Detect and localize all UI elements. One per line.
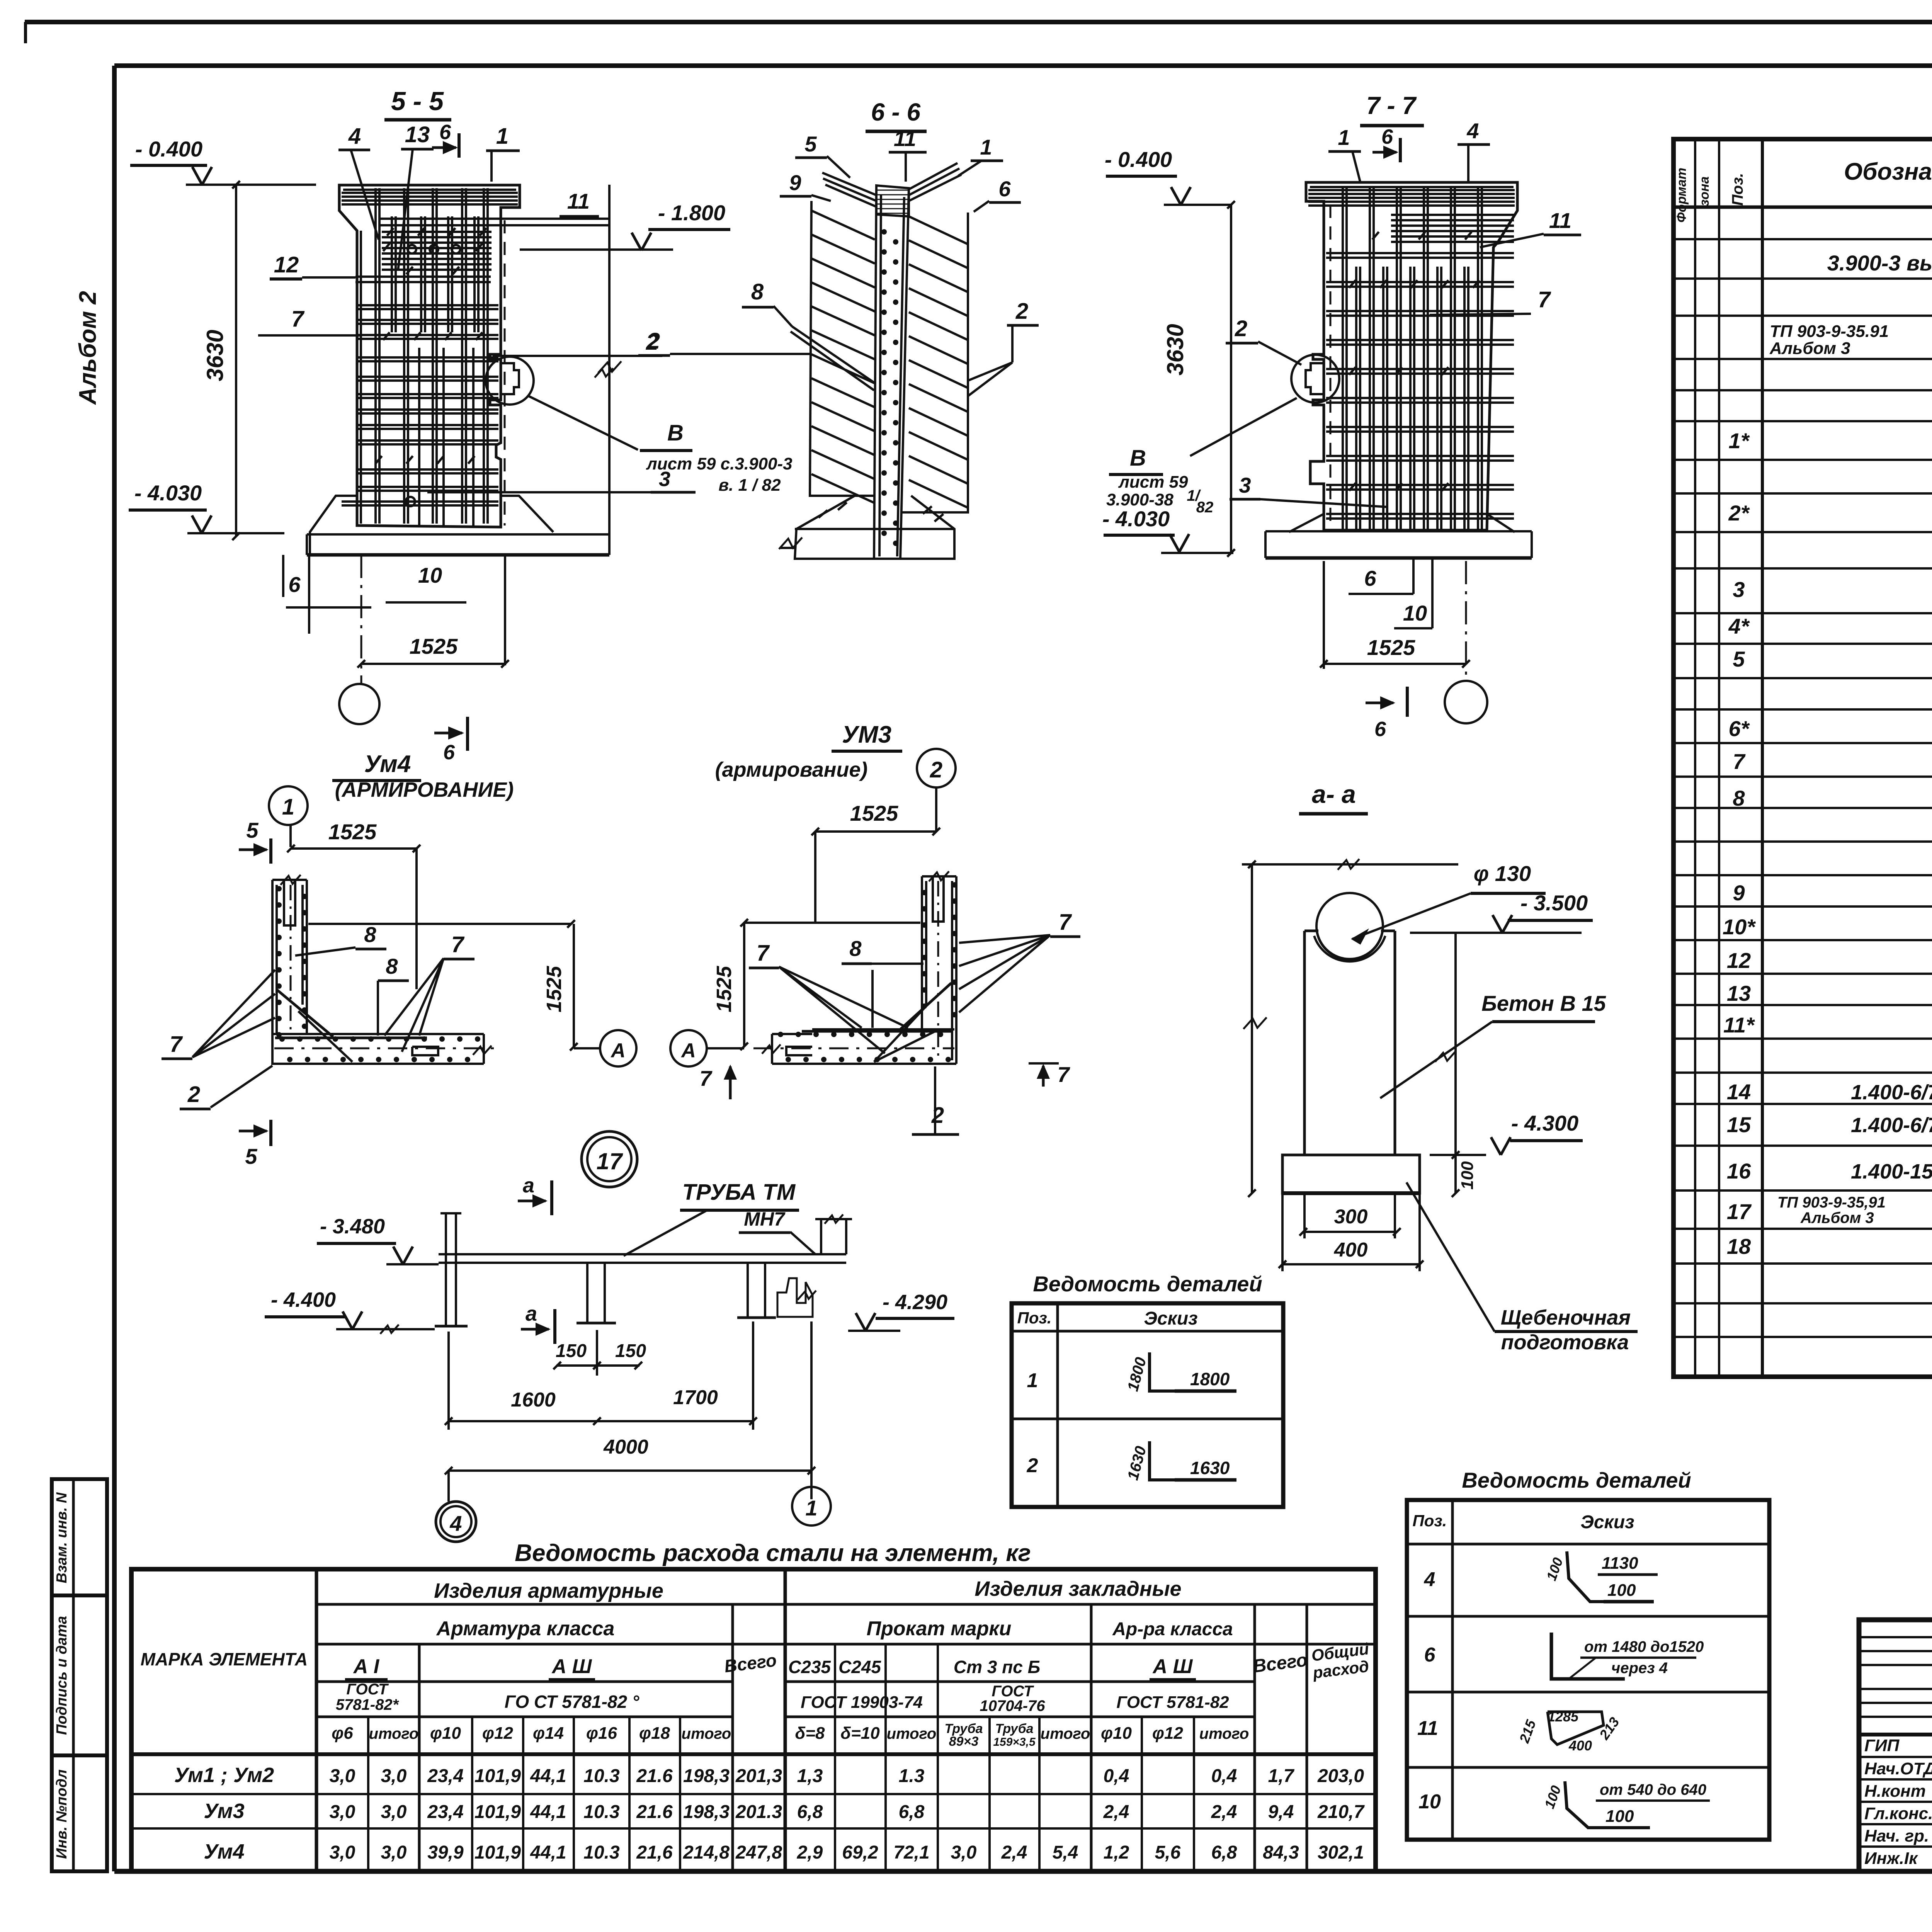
svg-text:Ум4: Ум4: [204, 1840, 244, 1863]
svg-text:лист 59: лист 59: [1118, 473, 1188, 492]
svg-text:4000: 4000: [603, 1436, 648, 1458]
svg-text:8: 8: [1733, 786, 1745, 810]
svg-text:итого: итого: [1199, 1725, 1249, 1742]
svg-text:Изделия арматурные: Изделия арматурные: [434, 1579, 663, 1602]
svg-text:Эскиз: Эскиз: [1580, 1512, 1634, 1532]
труба ТМ right pipe stub: [820, 1219, 822, 1254]
svg-text:3: 3: [659, 468, 670, 491]
svg-text:10*: 10*: [1723, 915, 1756, 939]
svg-text:201,3: 201,3: [735, 1766, 782, 1786]
section 5-5 horizontal bar pairs: [379, 218, 609, 220]
svg-text:1.3: 1.3: [899, 1766, 925, 1786]
svg-text:9,4: 9,4: [1268, 1802, 1294, 1822]
svg-text:1,2: 1,2: [1104, 1842, 1129, 1863]
труба ТМ left column: [445, 1213, 447, 1326]
svg-text:10.3: 10.3: [583, 1842, 620, 1863]
svg-text:7 - 7: 7 - 7: [1366, 92, 1417, 119]
svg-text:- 4.030: - 4.030: [134, 481, 202, 505]
svg-text:- 3.500: - 3.500: [1520, 891, 1588, 915]
svg-text:1800: 1800: [1190, 1369, 1230, 1389]
title block staff rows: [1859, 1756, 1932, 1758]
svg-text:1,3: 1,3: [797, 1766, 823, 1786]
svg-text:6: 6: [1364, 566, 1376, 590]
svg-text:6: 6: [998, 177, 1011, 201]
section а-а pipe circle: [1316, 893, 1383, 959]
svg-text:Ар-ра класса: Ар-ра класса: [1112, 1619, 1233, 1639]
section 5-5 column body outline: [339, 185, 520, 527]
svg-text:ТРУБА ТМ: ТРУБА ТМ: [682, 1180, 796, 1205]
svg-text:1525: 1525: [713, 966, 736, 1012]
section 6-6 left wall hatch: [811, 211, 875, 240]
svg-text:Нач.ОТД: Нач.ОТД: [1864, 1759, 1932, 1778]
svg-text:6,8: 6,8: [797, 1802, 823, 1822]
svg-text:6 - 6: 6 - 6: [871, 98, 920, 126]
svg-text:69,2: 69,2: [842, 1842, 878, 1863]
svg-text:1700: 1700: [673, 1386, 718, 1409]
svg-text:φ 130: φ 130: [1474, 861, 1531, 886]
section 5-5 vertical dimension 3630: [235, 185, 237, 536]
svg-text:1630: 1630: [1190, 1458, 1230, 1478]
svg-text:8: 8: [751, 279, 764, 304]
svg-text:Альбом 3: Альбом 3: [1769, 339, 1850, 358]
section а-а right dim line: [1454, 933, 1457, 1193]
svg-text:5 - 5: 5 - 5: [391, 87, 444, 116]
section 7-7 top flange rebar: [1308, 189, 1515, 191]
svg-text:89×3: 89×3: [949, 1734, 979, 1749]
node 17 double circle: [582, 1131, 637, 1187]
svg-text:δ=10: δ=10: [840, 1724, 880, 1743]
svg-text:17: 17: [597, 1148, 623, 1174]
svg-text:в. 1 / 82: в. 1 / 82: [718, 476, 781, 495]
section 6-6 stem top box: [876, 185, 909, 216]
svg-text:101,9: 101,9: [474, 1802, 521, 1822]
title block outer border: [1859, 1620, 1932, 1871]
Ум3 top reference line: [744, 922, 920, 924]
svg-text:201.3: 201.3: [735, 1802, 782, 1822]
svg-text:δ=8: δ=8: [795, 1724, 825, 1743]
svg-text:8: 8: [849, 936, 862, 961]
svg-text:Ум3: Ум3: [204, 1799, 244, 1823]
svg-text:44,1: 44,1: [530, 1842, 566, 1863]
svg-text:2: 2: [1235, 316, 1247, 341]
svg-text:подготовка: подготовка: [1501, 1331, 1629, 1354]
svg-text:4: 4: [1466, 119, 1479, 143]
svg-text:12: 12: [1727, 948, 1751, 973]
svg-text:5,4: 5,4: [1053, 1842, 1078, 1863]
section 5-5 top dense stirrup cluster: [382, 231, 492, 233]
svg-text:2,4: 2,4: [1001, 1842, 1027, 1863]
Ум3 wall outline: [922, 876, 956, 1064]
svg-text:Ум4: Ум4: [364, 751, 411, 777]
svg-text:4: 4: [1424, 1568, 1435, 1591]
svg-text:итого: итого: [369, 1725, 419, 1742]
svg-text:3.900-3 вып. 1 / 82: 3.900-3 вып. 1 / 82: [1827, 251, 1932, 275]
svg-text:Н.конт: Н.конт: [1864, 1782, 1926, 1801]
svg-text:12: 12: [274, 252, 299, 277]
svg-text:φ6: φ6: [332, 1724, 353, 1743]
section 7-7 stirrup ticks: [1349, 280, 1356, 288]
svg-text:1: 1: [1338, 125, 1350, 150]
svg-text:МАРКА ЭЛЕМЕНТА: МАРКА ЭЛЕМЕНТА: [141, 1649, 308, 1669]
section а-а view: [1242, 780, 1638, 1354]
svg-text:2,4: 2,4: [1103, 1802, 1129, 1822]
svg-text:- 1.800: - 1.800: [658, 201, 725, 225]
svg-text:100: 100: [1458, 1161, 1477, 1190]
svg-text:итого: итого: [682, 1725, 731, 1742]
svg-text:φ14: φ14: [533, 1724, 564, 1743]
svg-text:В: В: [1130, 446, 1146, 471]
svg-text:39,9: 39,9: [427, 1842, 464, 1863]
section а-а column: [1304, 931, 1395, 1155]
труба ТМ pipe double line: [439, 1253, 846, 1255]
svg-text:2,4: 2,4: [1211, 1802, 1237, 1822]
svg-text:1130: 1130: [1602, 1554, 1638, 1573]
svg-text:21,6: 21,6: [636, 1842, 673, 1863]
svg-text:3: 3: [1239, 473, 1251, 497]
Ум4 slab outline: [272, 1034, 484, 1064]
section а-а top reference line: [1242, 863, 1458, 866]
svg-text:3,0: 3,0: [381, 1802, 407, 1822]
svg-text:7: 7: [170, 1032, 183, 1057]
Ум4 section mark 5 bottom: [239, 1130, 267, 1133]
section 5-5 notch key detail: [501, 363, 519, 394]
svg-text:1525: 1525: [1367, 635, 1415, 660]
svg-text:1525: 1525: [543, 966, 566, 1012]
section а-а footing: [1282, 1155, 1420, 1193]
section 7-7 view: [1102, 92, 1581, 741]
svg-text:11: 11: [894, 126, 916, 151]
svg-text:150: 150: [556, 1341, 587, 1361]
svg-text:302,1: 302,1: [1318, 1842, 1364, 1863]
svg-text:7: 7: [451, 932, 465, 957]
Ум3 slab centerline dash: [753, 1048, 954, 1049]
svg-text:3.900-38: 3.900-38: [1106, 490, 1173, 509]
svg-text:2: 2: [187, 1082, 200, 1107]
svg-text:400: 400: [1568, 1738, 1592, 1753]
svg-text:3,0: 3,0: [381, 1766, 407, 1786]
svg-text:а: а: [523, 1174, 534, 1197]
svg-text:5,6: 5,6: [1155, 1842, 1181, 1863]
svg-text:6,8: 6,8: [1211, 1842, 1237, 1863]
svg-text:А Ш: А Ш: [551, 1655, 592, 1678]
svg-text:10.3: 10.3: [583, 1802, 620, 1822]
section 5-5 cluster circles: [408, 245, 416, 253]
svg-text:6: 6: [439, 121, 451, 144]
svg-text:11: 11: [567, 189, 590, 213]
section 5-5 top flange rebar: [342, 192, 518, 194]
svg-text:φ10: φ10: [1101, 1724, 1132, 1743]
svg-text:3630: 3630: [202, 330, 228, 381]
svg-text:Ведомость деталей: Ведомость деталей: [1033, 1272, 1262, 1296]
section 5-5 view: [129, 87, 793, 764]
detail table 2 border: [1407, 1500, 1769, 1840]
труба ТМ axis circle 1: [792, 1487, 831, 1526]
svg-text:9: 9: [789, 170, 801, 195]
Ум3 vertical dim 1525: [743, 923, 745, 1046]
svg-text:Поз.: Поз.: [1729, 173, 1746, 206]
svg-text:6: 6: [288, 572, 301, 597]
Ум3 haunch diagonals: [900, 983, 951, 1029]
svg-text:Бетон В 15: Бетон В 15: [1481, 991, 1606, 1015]
svg-text:(армирование): (армирование): [715, 758, 868, 781]
main frame left border: [112, 66, 117, 1871]
specification table column lines: [1694, 139, 1696, 1377]
svg-text:ТП 903-9-35.91: ТП 903-9-35.91: [1770, 322, 1889, 341]
svg-text:- 4.290: - 4.290: [883, 1291, 947, 1314]
svg-text:ТП 903-9-35,91: ТП 903-9-35,91: [1777, 1194, 1886, 1211]
svg-text:1: 1: [980, 135, 992, 159]
svg-text:Труба: Труба: [995, 1721, 1033, 1736]
svg-text:210,7: 210,7: [1317, 1802, 1365, 1822]
svg-text:17: 17: [1727, 1199, 1752, 1224]
section 6-6 right wall hatch: [909, 216, 968, 244]
svg-text:- 4.400: - 4.400: [271, 1288, 336, 1311]
svg-text:Гл.конс.: Гл.конс.: [1864, 1804, 1932, 1823]
svg-text:Поз.: Поз.: [1413, 1512, 1447, 1530]
svg-text:φ18: φ18: [639, 1724, 670, 1743]
svg-text:100: 100: [1607, 1581, 1636, 1600]
svg-text:Поз.: Поз.: [1017, 1309, 1052, 1327]
svg-text:- 4.300: - 4.300: [1511, 1111, 1578, 1135]
section 5-5 body inner formwork lines: [343, 189, 516, 191]
svg-text:203,0: 203,0: [1317, 1766, 1364, 1786]
svg-text:14: 14: [1727, 1080, 1751, 1104]
section 5-5 lower grid verticals: [418, 348, 420, 526]
svg-text:8: 8: [386, 954, 398, 978]
svg-text:Эскиз: Эскиз: [1144, 1308, 1197, 1329]
svg-text:1*: 1*: [1729, 429, 1750, 453]
svg-text:5: 5: [1733, 647, 1745, 671]
Ум3 axis circle 2: [917, 749, 956, 787]
Ум3 А axis circles: [670, 1030, 707, 1066]
steel table outer border: [131, 1569, 1376, 1871]
svg-text:1,7: 1,7: [1268, 1766, 1295, 1786]
труба ТМ detail view: [265, 1174, 954, 1542]
svg-text:159×3,5: 159×3,5: [993, 1736, 1036, 1748]
section 5-5 axis circle: [339, 684, 379, 724]
svg-text:7: 7: [1057, 1062, 1070, 1087]
svg-text:13: 13: [1727, 981, 1751, 1005]
svg-text:Ум1 ; Ум2: Ум1 ; Ум2: [174, 1764, 274, 1787]
svg-text:2: 2: [931, 1103, 944, 1128]
svg-text:7: 7: [291, 306, 305, 332]
section 6-6 footing hatch ticks: [819, 510, 828, 517]
svg-text:А: А: [610, 1039, 626, 1062]
svg-text:3,0: 3,0: [330, 1802, 355, 1822]
svg-text:1.400-6/76: 1.400-6/76: [1851, 1114, 1932, 1137]
svg-text:ГИП: ГИП: [1864, 1736, 1900, 1755]
труба ТМ middle column: [586, 1263, 588, 1323]
svg-text:4: 4: [449, 1511, 462, 1536]
svg-text:2*: 2*: [1728, 501, 1750, 525]
Ум4 wall inner formwork: [276, 885, 278, 1034]
svg-text:4*: 4*: [1728, 614, 1750, 638]
труба ТМ right column with МН7 anchor: [747, 1263, 749, 1318]
svg-text:6: 6: [1424, 1644, 1436, 1666]
svg-text:ГОСТ 19903-74: ГОСТ 19903-74: [801, 1693, 923, 1712]
svg-text:23,4: 23,4: [427, 1766, 463, 1786]
Ум4 haunch diagonals: [277, 990, 333, 1037]
Ум4 slab top bar thick: [275, 1037, 427, 1039]
svg-text:3,0: 3,0: [330, 1766, 355, 1786]
svg-text:9: 9: [1733, 881, 1745, 905]
svg-text:11*: 11*: [1723, 1013, 1755, 1037]
section 5-5 small circle lower: [406, 497, 415, 506]
svg-text:итого: итого: [887, 1725, 937, 1742]
svg-text:5: 5: [804, 132, 817, 156]
svg-text:2: 2: [930, 757, 942, 782]
section 5-5 section mark 6 bottom arrow: [434, 732, 462, 735]
svg-text:1: 1: [496, 124, 509, 149]
svg-text:5781-82*: 5781-82*: [336, 1696, 400, 1713]
svg-text:82: 82: [1196, 499, 1214, 516]
Ум3 rebar dots: [952, 882, 957, 888]
svg-text:101,9: 101,9: [474, 1766, 521, 1786]
svg-text:4: 4: [348, 124, 361, 149]
svg-text:7: 7: [1733, 749, 1746, 774]
svg-text:3,0: 3,0: [951, 1842, 977, 1863]
svg-text:7: 7: [699, 1066, 713, 1090]
Ум4 top reference line: [308, 923, 571, 925]
Ум4 wall outline: [272, 880, 307, 1037]
svg-text:16: 16: [1727, 1159, 1751, 1183]
svg-text:2: 2: [647, 328, 660, 354]
svg-text:А: А: [680, 1039, 696, 1062]
svg-text:С245: С245: [838, 1657, 881, 1677]
svg-text:ГО СТ 5781-82 °: ГО СТ 5781-82 °: [505, 1692, 639, 1712]
svg-text:6,8: 6,8: [899, 1802, 925, 1822]
Ум4 axis circle 1: [269, 786, 308, 825]
section 5-5 stirrup tick marks: [383, 243, 390, 251]
Ум3 wall inner formwork: [951, 881, 953, 1060]
svg-text:зона: зона: [1697, 176, 1712, 206]
detail table 1 border: [1012, 1303, 1283, 1507]
section 7-7 dense cluster top right: [1391, 214, 1514, 216]
Ум3 up arrow 7 left: [729, 1066, 732, 1099]
svg-text:1525: 1525: [850, 801, 898, 825]
Ум4 А axis circle right: [600, 1030, 636, 1066]
svg-text:101,9: 101,9: [474, 1842, 521, 1863]
svg-text:от 1480 до1520: от 1480 до1520: [1584, 1638, 1704, 1655]
section 5-5 vertical bars: [374, 188, 377, 524]
Ум4 slab centerline dash: [274, 1048, 498, 1049]
svg-text:1600: 1600: [511, 1389, 556, 1411]
svg-text:6: 6: [1374, 718, 1386, 741]
svg-text:УМ3: УМ3: [842, 721, 891, 748]
svg-text:21.6: 21.6: [636, 1802, 673, 1822]
section 7-7 column body outline: [1306, 182, 1517, 530]
main frame bottom border: [114, 1869, 1932, 1874]
svg-text:2,9: 2,9: [797, 1842, 823, 1863]
svg-text:1285: 1285: [1548, 1709, 1579, 1725]
svg-text:13: 13: [405, 122, 430, 147]
steel table header horizontals: [316, 1603, 1376, 1606]
section 5-5 dashed edge line: [504, 220, 506, 526]
svg-text:10.3: 10.3: [583, 1766, 620, 1786]
svg-text:11: 11: [1549, 208, 1571, 233]
Ум3 wall top slot: [933, 876, 944, 922]
svg-text:а- а: а- а: [1312, 780, 1356, 808]
svg-text:400: 400: [1334, 1239, 1368, 1261]
svg-text:100: 100: [1605, 1807, 1634, 1826]
svg-text:φ16: φ16: [586, 1724, 617, 1743]
section 5-5 footing: [310, 496, 553, 555]
Ум4 vertical dim 1525: [573, 924, 575, 1047]
svg-text:Ст 3 пс Б: Ст 3 пс Б: [954, 1657, 1040, 1677]
Ум3 slab top bar thick: [802, 1030, 952, 1033]
svg-text:ГОСТ 5781-82: ГОСТ 5781-82: [1116, 1693, 1229, 1712]
svg-text:3: 3: [1733, 577, 1745, 602]
svg-text:198,3: 198,3: [683, 1802, 730, 1822]
svg-text:3,0: 3,0: [330, 1842, 355, 1863]
svg-text:Обозначение: Обозначение: [1844, 158, 1932, 185]
svg-text:1.400-6/76: 1.400-6/76: [1851, 1081, 1932, 1104]
section 6-6 left wall: [810, 201, 874, 496]
section 7-7 label 6 bottom: [1412, 558, 1415, 594]
svg-text:300: 300: [1334, 1206, 1368, 1228]
svg-text:0,4: 0,4: [1104, 1766, 1129, 1786]
svg-text:Взам. инв. N: Взам. инв. N: [54, 1492, 70, 1583]
svg-text:3,0: 3,0: [381, 1842, 407, 1863]
svg-text:Нач. гр.: Нач. гр.: [1864, 1827, 1929, 1845]
section 7-7 notch key detail left: [1306, 363, 1324, 394]
svg-text:МН7: МН7: [744, 1208, 786, 1230]
svg-text:72,1: 72,1: [893, 1842, 929, 1863]
main frame top border: [114, 63, 1932, 68]
svg-text:а: а: [526, 1302, 537, 1325]
section 7-7 dashed inner line: [1330, 205, 1332, 529]
svg-text:6: 6: [1381, 125, 1393, 148]
svg-text:А Ш: А Ш: [1152, 1655, 1193, 1678]
svg-text:- 0.400: - 0.400: [1105, 147, 1172, 172]
steel table vertical lines: [315, 1569, 318, 1871]
svg-text:44,1: 44,1: [530, 1766, 566, 1786]
svg-text:5: 5: [245, 1144, 257, 1168]
svg-text:итого: итого: [1041, 1725, 1090, 1742]
svg-text:(АРМИРОВАНИЕ): (АРМИРОВАНИЕ): [335, 778, 514, 801]
svg-text:6*: 6*: [1729, 716, 1750, 741]
svg-text:2: 2: [1027, 1454, 1038, 1477]
section 6-6 stem rebar dots: [881, 229, 887, 235]
sheet outer top border: [25, 20, 1932, 24]
svg-text:10: 10: [418, 563, 442, 587]
svg-text:8: 8: [364, 922, 376, 947]
svg-text:Изделия закладные: Изделия закладные: [975, 1577, 1181, 1600]
section 5-5 leader to В block: [529, 396, 638, 450]
section 6-6 footing: [795, 496, 954, 559]
section 6-6 stem: [874, 185, 909, 559]
svg-text:1525: 1525: [410, 634, 458, 658]
section 6-6 right wall: [900, 213, 968, 512]
svg-text:10: 10: [1403, 601, 1427, 625]
svg-text:23,4: 23,4: [427, 1802, 463, 1822]
svg-text:21.6: 21.6: [636, 1766, 673, 1786]
Ум4 armature view: [162, 751, 636, 1168]
Ум3 slab outline: [772, 1029, 956, 1064]
svg-text:150: 150: [615, 1341, 646, 1361]
section 7-7 В block: [1190, 398, 1297, 456]
svg-text:6: 6: [443, 741, 455, 764]
svg-text:3630: 3630: [1162, 324, 1188, 375]
svg-text:1.400-15: 1.400-15: [1851, 1160, 1932, 1183]
svg-text:10: 10: [1418, 1791, 1441, 1813]
svg-text:18: 18: [1727, 1234, 1751, 1259]
Ум3 armature view: [582, 721, 1080, 1187]
specification row lines: [1673, 238, 1932, 240]
труба ТМ axis circle 4: [436, 1502, 476, 1542]
section 7-7 vertical dim 3630: [1230, 205, 1232, 553]
svg-text:198,3: 198,3: [683, 1766, 730, 1786]
